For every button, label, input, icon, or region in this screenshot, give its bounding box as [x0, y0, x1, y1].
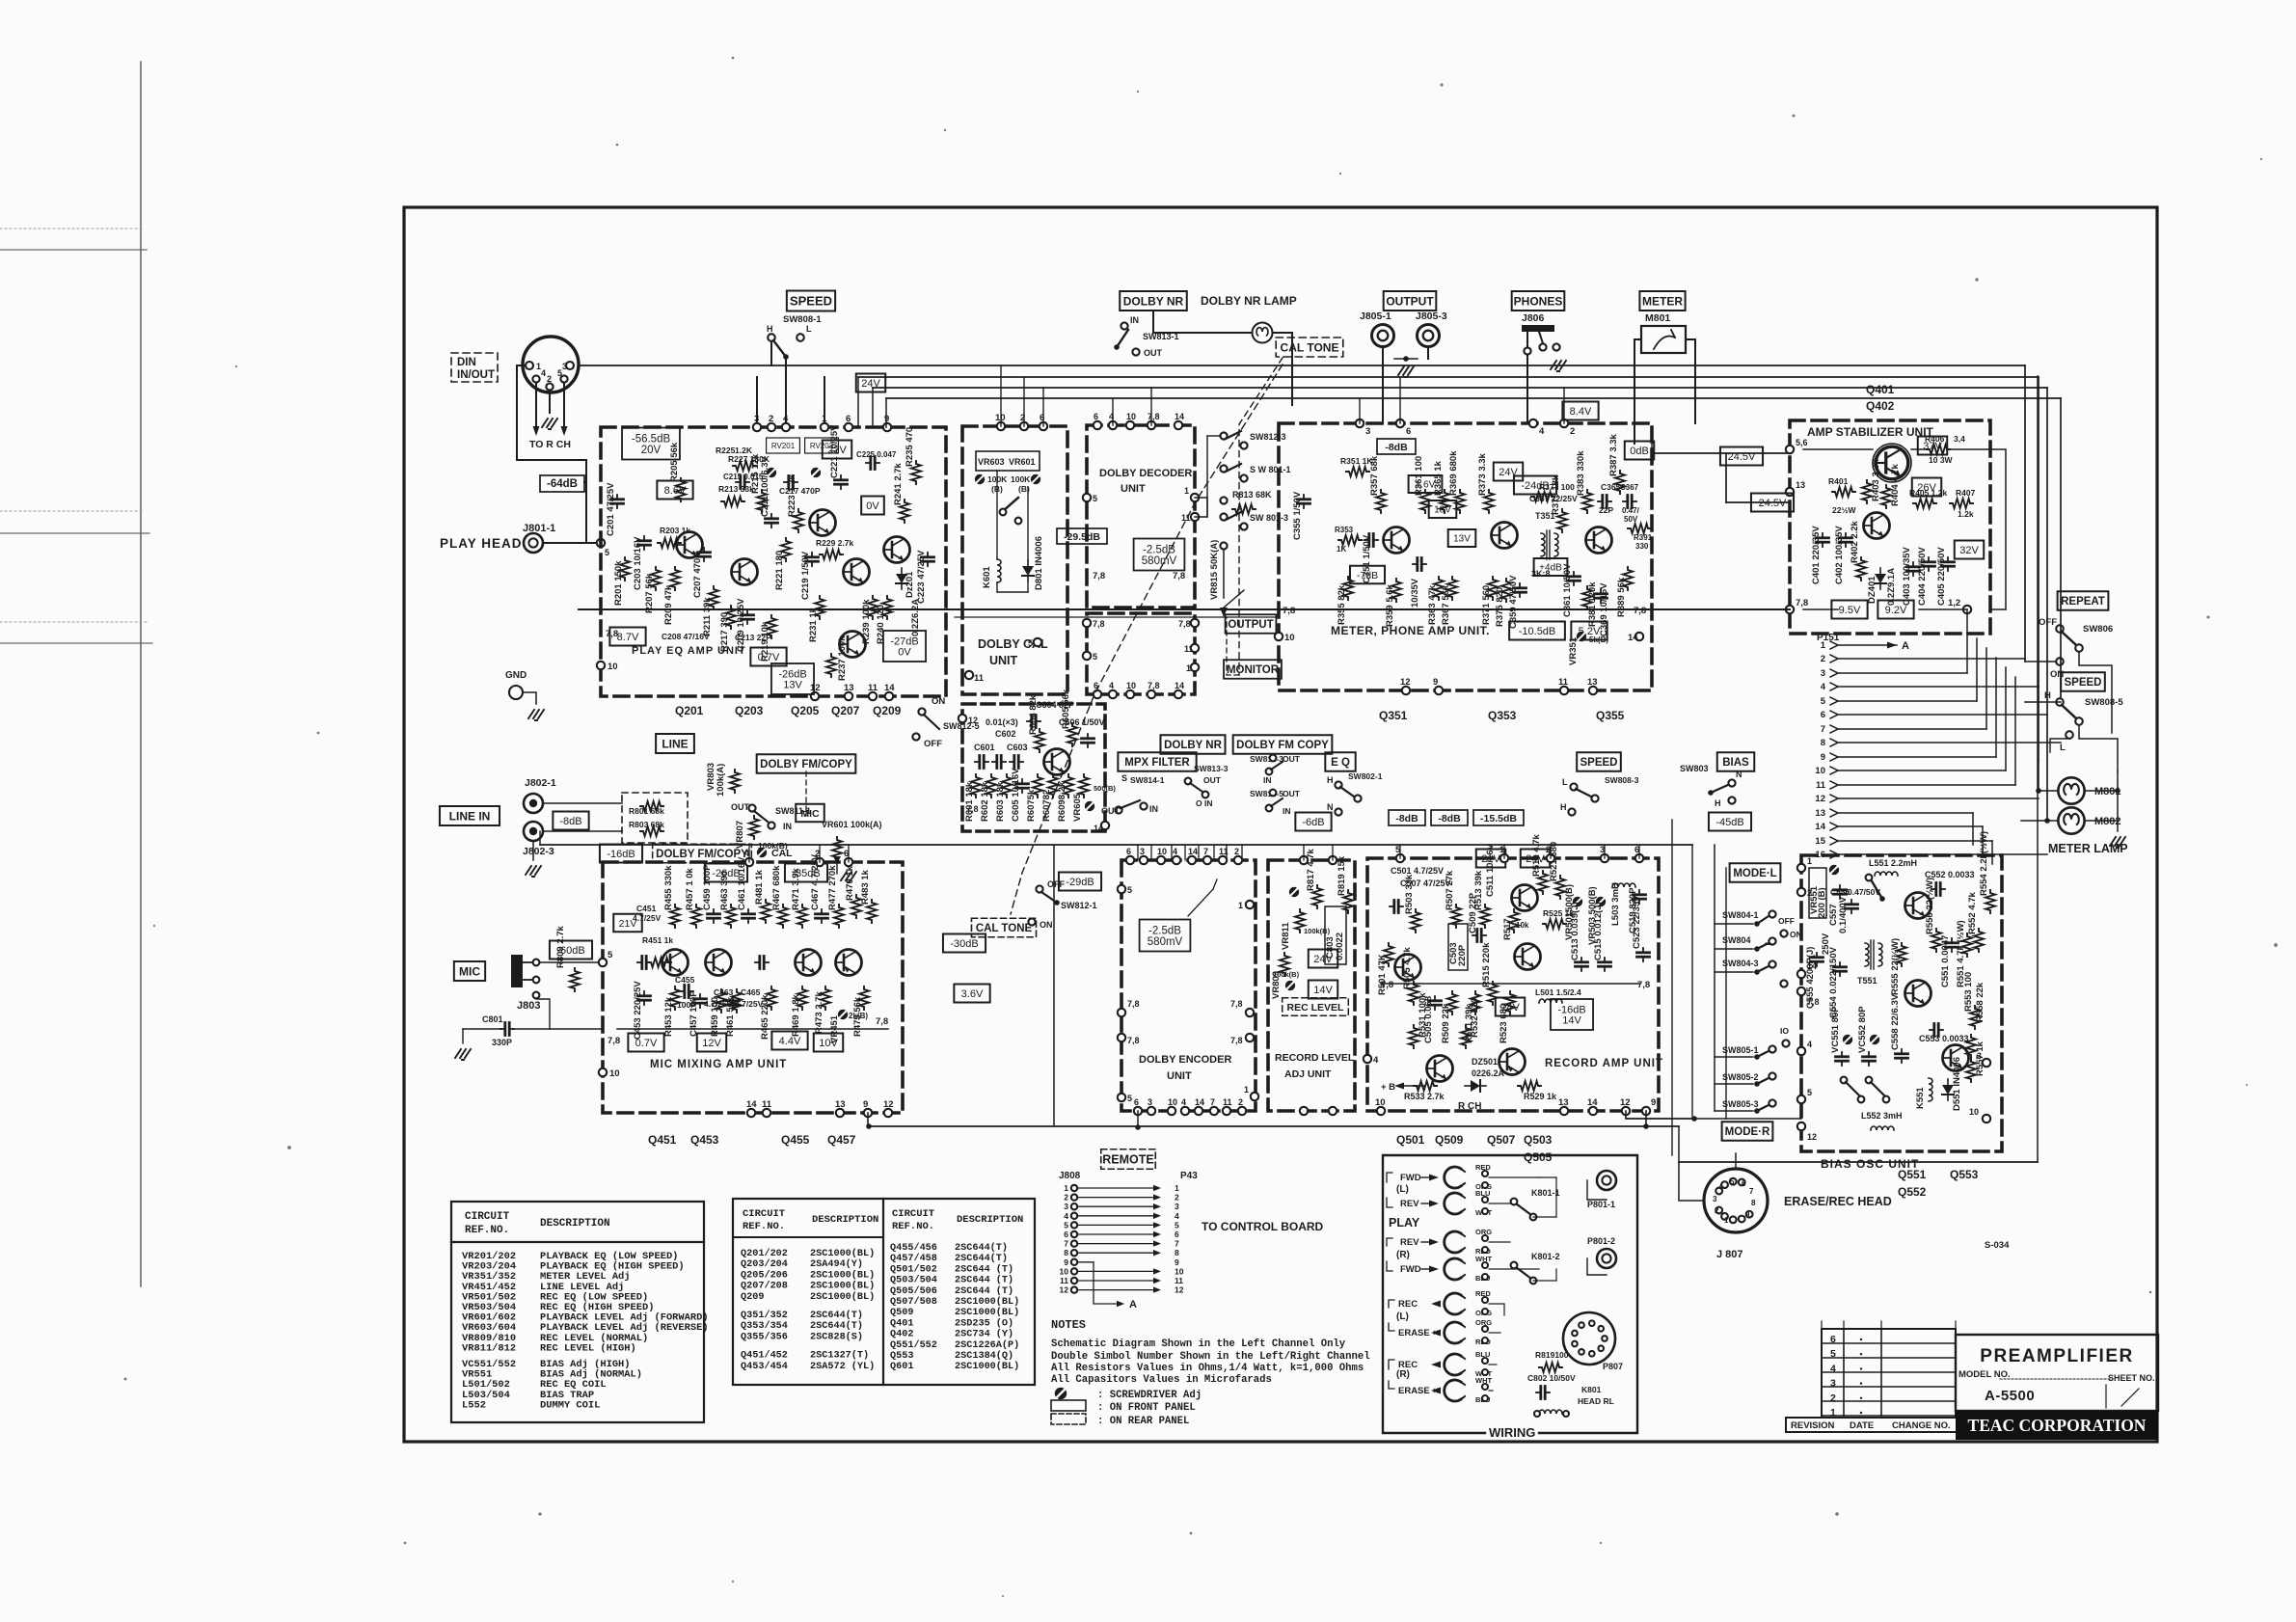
svg-text:9: 9 — [1745, 1210, 1750, 1219]
pin dolby nr out — [1132, 348, 1139, 355]
wire meter right — [1686, 339, 1695, 423]
resistor R803 68k — [640, 826, 663, 836]
svg-text:1: 1 — [1724, 1216, 1729, 1225]
resistor R235 470 — [911, 461, 921, 484]
svg-text:J802-1: J802-1 — [525, 777, 556, 789]
svg-text:S-034: S-034 — [1985, 1240, 2010, 1251]
svg-text:RECORD AMP UNIT: RECORD AMP UNIT — [1545, 1058, 1663, 1069]
left margin scan line — [140, 62, 142, 1286]
svg-text:R532 120: R532 120 — [1470, 998, 1480, 1038]
svg-text:J802-3: J802-3 — [523, 846, 554, 857]
MPX FILTER label — [1118, 752, 1196, 771]
svg-text:-56.5dB: -56.5dB — [632, 434, 671, 446]
decoder lower box — [1087, 613, 1195, 694]
resistor R369 680k — [1455, 490, 1465, 513]
svg-text:R229 2.7k: R229 2.7k — [816, 538, 853, 548]
svg-text:7: 7 — [1749, 1187, 1754, 1196]
svg-text:5: 5 — [557, 368, 562, 378]
svg-text:-10.5dB: -10.5dB — [1519, 626, 1556, 637]
svg-text:Q505/506: Q505/506 — [890, 1285, 937, 1297]
resistor R553 100 — [1970, 1006, 1980, 1029]
rec level bottom pins — [1300, 1107, 1308, 1115]
encoder top pins — [1126, 856, 1134, 864]
net 8.4V — [1562, 402, 1598, 420]
svg-text:7,8: 7,8 — [1173, 571, 1185, 581]
resistor R361 100 — [1420, 490, 1430, 513]
svg-text:R455 330k: R455 330k — [663, 865, 674, 910]
riser x2114 — [2038, 377, 2039, 761]
pin dolby nr in — [1121, 322, 1127, 329]
riser meter pins — [1359, 398, 1361, 423]
svg-text:7,8: 7,8 — [608, 1036, 620, 1046]
wire DIN pin2 down to ground — [549, 391, 551, 413]
CAL TONE rear-panel label (top) — [1276, 338, 1343, 357]
net -15.5dB — [1473, 810, 1524, 825]
svg-text:22P: 22P — [1599, 505, 1613, 515]
transistor Q551 — [1905, 893, 1931, 919]
svg-text:10k: 10k — [1516, 921, 1529, 930]
svg-text:8.7V: 8.7V — [617, 632, 639, 643]
svg-text:1: 1 — [1238, 901, 1243, 910]
jack P801-1 — [1597, 1171, 1616, 1190]
decoder lower pins — [1083, 619, 1091, 627]
decoder pin 1 — [1191, 494, 1199, 501]
coil L503 3mH — [1612, 883, 1635, 887]
bus y632 right — [1990, 608, 2006, 610]
svg-text:10: 10 — [1060, 1266, 1069, 1276]
resistor R801 68k — [640, 801, 663, 811]
trimmer RV201 — [767, 438, 800, 453]
svg-text:C602: C602 — [995, 729, 1016, 739]
resistor R227 180K — [733, 461, 756, 471]
svg-text:PLAY: PLAY — [1389, 1216, 1420, 1230]
svg-text:7,8: 7,8 — [1283, 606, 1295, 616]
svg-text:C223 47/25V: C223 47/25V — [916, 550, 927, 604]
svg-text:R819 15k: R819 15k — [1337, 855, 1347, 896]
svg-text:C211 100/6.3V: C211 100/6.3V — [760, 455, 770, 517]
pot VR551 — [1809, 868, 1826, 918]
bias pin 5 — [1797, 1095, 1805, 1103]
resistor R525 1k — [1543, 919, 1566, 929]
wire switch column — [1206, 436, 1208, 517]
svg-text:IO: IO — [1780, 1026, 1789, 1036]
resistor R211 39k — [709, 586, 718, 609]
svg-text:CAL TONE: CAL TONE — [976, 923, 1033, 934]
svg-text:MIC: MIC — [800, 808, 820, 820]
svg-text:0226.2A: 0226.2A — [1472, 1068, 1505, 1078]
svg-text:N: N — [1327, 802, 1334, 812]
svg-text:R483 1k: R483 1k — [860, 869, 871, 905]
head REC 1415 — [1445, 1354, 1465, 1375]
svg-text:R357 68k: R357 68k — [1369, 455, 1380, 496]
svg-text:C453 220/25V: C453 220/25V — [633, 981, 643, 1040]
svg-text:R509 22k: R509 22k — [1441, 1003, 1451, 1043]
capacitor C215 — [736, 476, 749, 489]
svg-text:Q402: Q402 — [890, 1330, 913, 1340]
wire play head to PLAY EQ unit pin 5 — [543, 542, 601, 544]
svg-text:MIC: MIC — [459, 964, 480, 978]
svg-text:2SC1384(Q): 2SC1384(Q) — [955, 1350, 1013, 1362]
svg-text:H: H — [1327, 775, 1334, 785]
svg-text:R813 68K: R813 68K — [1232, 490, 1272, 500]
transistor Q209 — [884, 537, 910, 563]
transistor Q402 — [1864, 513, 1890, 539]
net 0.7V mic — [628, 1034, 663, 1052]
svg-text:100k(A): 100k(A) — [716, 764, 726, 797]
svg-text:12: 12 — [883, 1099, 894, 1110]
resistor R459 — [716, 989, 726, 1013]
DOLBY FM/COPY dashed label — [653, 844, 752, 863]
svg-text:2: 2 — [769, 414, 773, 424]
capacitor C503 220P — [1448, 924, 1468, 970]
capacitor C803 0.0022 — [1325, 906, 1346, 964]
svg-text:13: 13 — [1558, 1097, 1569, 1108]
svg-text:IN: IN — [1283, 806, 1291, 816]
svg-text:6: 6 — [1406, 426, 1411, 437]
riser x1093 — [1053, 845, 1055, 1126]
svg-text:K601: K601 — [982, 566, 992, 588]
svg-text:100k(B): 100k(B) — [1304, 927, 1331, 935]
mic top pins — [745, 858, 753, 866]
svg-text:FWD: FWD — [1400, 1264, 1421, 1275]
svg-text:R451 1k: R451 1k — [642, 935, 673, 945]
left margin tick 3 — [0, 532, 149, 534]
svg-text:2SC644 (T): 2SC644 (T) — [955, 1285, 1013, 1297]
svg-text:7,8: 7,8 — [1637, 980, 1650, 990]
svg-text:10: 10 — [1815, 766, 1825, 776]
svg-text:PHONES: PHONES — [1514, 294, 1563, 308]
resistor R469 1.8k — [797, 987, 807, 1010]
wire pin9 down — [1645, 1111, 1647, 1126]
resistor R531 100k — [1409, 1025, 1418, 1048]
resistor R556 22 — [1931, 929, 1941, 952]
svg-text:-2.5dB: -2.5dB — [1143, 545, 1175, 556]
svg-text:L501 1.5/2.4: L501 1.5/2.4 — [1535, 987, 1581, 997]
mode r wires — [1715, 1056, 1753, 1058]
svg-text:-29dB: -29dB — [1066, 877, 1094, 888]
gnd c801 — [462, 1029, 464, 1043]
resistor R515 220k — [1488, 982, 1498, 1005]
svg-text:R217 390: R217 390 — [719, 612, 730, 652]
svg-text:J805-3: J805-3 — [1416, 311, 1447, 322]
resistor R521 680 — [1555, 876, 1565, 899]
meter M801 movement — [1641, 326, 1686, 353]
svg-text:0.47/: 0.47/ — [1622, 506, 1640, 515]
svg-text:1: 1 — [1186, 663, 1191, 673]
REC LEVEL dashed label — [1283, 998, 1349, 1016]
svg-text:20V: 20V — [641, 445, 662, 456]
svg-text:All Resistors Values in Ohms,1: All Resistors Values in Ohms,1/4 Watt, k… — [1051, 1363, 1364, 1374]
lamp ground — [2117, 821, 2119, 831]
resistor R519 4.7k — [1538, 871, 1548, 894]
svg-text:-8dB: -8dB — [1438, 813, 1461, 825]
svg-text:7,8: 7,8 — [1148, 412, 1160, 421]
capacitor C361 10/50V — [1568, 572, 1580, 585]
svg-text:11: 11 — [1184, 644, 1194, 654]
relay K551 — [1929, 1078, 1932, 1101]
resistor R463 390 — [726, 905, 736, 928]
capacitor C519 820P — [1634, 890, 1646, 904]
svg-text:2SC1000(BL): 2SC1000(BL) — [955, 1361, 1019, 1372]
amp stab pin 13 — [1786, 488, 1794, 496]
DIN connector J801 body — [523, 337, 579, 392]
mic jack J803 — [511, 955, 523, 987]
resistor R554 2.2k — [1985, 890, 1995, 913]
svg-text:R605 56k: R605 56k — [1061, 689, 1071, 729]
svg-text:7,8: 7,8 — [1093, 619, 1105, 629]
transformer T551 — [1865, 943, 1869, 966]
resistor R377 100 — [1531, 492, 1554, 501]
svg-text:C219 1/50V: C219 1/50V — [800, 551, 811, 600]
pot VR815 — [1220, 542, 1227, 549]
svg-text:2SC644(T): 2SC644(T) — [810, 1320, 863, 1332]
svg-text:Q457/458: Q457/458 — [890, 1253, 937, 1264]
capacitor C513 0.039(J) — [1576, 958, 1588, 971]
svg-text:C203 10/16V: C203 10/16V — [633, 536, 643, 590]
svg-text:: ON FRONT PANEL: : ON FRONT PANEL — [1097, 1402, 1196, 1414]
svg-text:VR601: VR601 — [1009, 457, 1036, 467]
resistor R406 10 3W — [1927, 445, 1950, 454]
svg-text:10: 10 — [1157, 847, 1167, 856]
svg-text:Q453/454: Q453/454 — [741, 1361, 788, 1372]
capacitor C367 — [1623, 496, 1636, 508]
net 8.6V — [657, 481, 692, 500]
svg-text:7,8: 7,8 — [876, 1016, 888, 1027]
trimmer VR351 — [1577, 632, 1586, 641]
transistor Q505 — [1499, 1049, 1526, 1075]
svg-text:4: 4 — [1718, 1183, 1723, 1192]
svg-text:R558 22k: R558 22k — [1975, 982, 1985, 1022]
resistor R407 1.2k — [1950, 499, 1973, 508]
bus y1160 — [1626, 1118, 1801, 1120]
capacitor C554 — [1834, 962, 1847, 976]
svg-text:REVISION: REVISION — [1791, 1420, 1835, 1431]
bus wire top y379 — [580, 365, 2025, 366]
svg-text:SW808-5: SW808-5 — [2085, 697, 2123, 708]
svg-text:Q401: Q401 — [890, 1318, 913, 1329]
svg-text:7,8: 7,8 — [1178, 619, 1191, 629]
svg-text:4: 4 — [1821, 682, 1826, 692]
svg-text:C213 22P: C213 22P — [735, 633, 771, 642]
wire mic pin9 riser — [867, 1113, 869, 1126]
svg-text:CIRCUIT: CIRCUIT — [743, 1208, 785, 1220]
svg-text:R221 180: R221 180 — [774, 551, 785, 590]
riser reclevel top pins — [1303, 845, 1305, 860]
mic unit pin 10 — [599, 1068, 607, 1076]
svg-text:4: 4 — [1539, 426, 1545, 437]
svg-text:6: 6 — [1134, 1097, 1139, 1107]
svg-text:R231 1k: R231 1k — [808, 607, 819, 642]
svg-text:R6098.2k: R6098.2k — [1057, 781, 1067, 822]
svg-text:OUTPUT: OUTPUT — [1228, 619, 1273, 631]
svg-text:OUT: OUT — [731, 802, 750, 812]
svg-text:×: × — [1433, 1328, 1438, 1338]
svg-text:5: 5 — [605, 548, 609, 557]
capacitor C223 — [922, 553, 934, 566]
svg-text:R507 27k: R507 27k — [1445, 870, 1455, 910]
svg-text:C515 0.012(J): C515 0.012(J) — [1593, 902, 1604, 960]
transistor Q355 — [1586, 527, 1612, 554]
svg-text:CAL TONE: CAL TONE — [1281, 340, 1339, 354]
svg-text:C461 10/16V: C461 10/16V — [737, 856, 747, 910]
capacitor C359 47/50V — [1514, 583, 1526, 597]
svg-text:4: 4 — [783, 414, 789, 424]
svg-text:R471 3.9k: R471 3.9k — [791, 867, 801, 910]
wire J802-1 right — [543, 802, 622, 804]
svg-text:L: L — [806, 324, 812, 334]
capacitor C221 — [835, 475, 848, 489]
svg-text:ERASE/REC HEAD: ERASE/REC HEAD — [1784, 1195, 1892, 1208]
meter amp pin14 — [1635, 633, 1643, 640]
net -16dB — [600, 845, 642, 863]
DIN IN/OUT rear-panel label — [451, 353, 498, 382]
transistor Q601 — [1044, 749, 1070, 775]
svg-text:K551: K551 — [1915, 1087, 1926, 1109]
transistor Q351 — [1384, 527, 1410, 554]
wire play eq internal bus — [617, 608, 940, 610]
wire encoder leader — [1188, 889, 1213, 916]
svg-text:(L): (L) — [1396, 1184, 1409, 1195]
svg-text:2SC828(S): 2SC828(S) — [810, 1331, 863, 1342]
net -29.5dB — [1057, 528, 1107, 544]
net 24.5V b — [1751, 494, 1794, 512]
svg-text:2SC644 (T): 2SC644 (T) — [955, 1275, 1013, 1286]
left margin tick 4 — [0, 510, 145, 512]
riser x2113 long — [2037, 376, 2039, 1162]
svg-text:100K: 100K — [1011, 474, 1031, 484]
bias pin 12 — [1797, 1122, 1805, 1130]
svg-text:N: N — [1736, 770, 1742, 779]
svg-text:C359 47/50V: C359 47/50V — [1508, 575, 1519, 629]
svg-text:VC552 80P: VC552 80P — [1857, 1006, 1868, 1053]
svg-text:UNIT: UNIT — [1167, 1070, 1192, 1082]
svg-text:11: 11 — [1175, 1276, 1183, 1285]
svg-text:Q509: Q509 — [1435, 1133, 1464, 1147]
svg-text:H: H — [767, 324, 773, 334]
svg-text:12: 12 — [810, 683, 821, 693]
svg-text:14: 14 — [1195, 1097, 1204, 1107]
svg-text:R501 47K: R501 47K — [1377, 954, 1388, 995]
svg-text:C603: C603 — [1007, 743, 1028, 752]
svg-text:SW804-1: SW804-1 — [1722, 910, 1759, 920]
DOLBY CAL UNIT box — [962, 426, 1067, 694]
svg-text:PLAY HEAD: PLAY HEAD — [440, 536, 523, 551]
cal tone diagonal — [1011, 365, 1283, 914]
meter amp bottom pins — [1402, 687, 1410, 694]
CAL TONE mid label — [971, 918, 1036, 937]
bias pin 1 — [1797, 864, 1805, 872]
wire speed pins vertical 1 — [756, 377, 758, 427]
svg-text:R475 56k: R475 56k — [852, 996, 863, 1037]
capacitor C219 — [806, 553, 819, 566]
svg-text:Q551: Q551 — [1898, 1168, 1927, 1181]
svg-text:Q207/208: Q207/208 — [741, 1281, 788, 1292]
svg-text:4: 4 — [1830, 1363, 1836, 1374]
svg-text:24V: 24V — [1313, 954, 1333, 965]
SPEED mid label — [1577, 752, 1621, 771]
svg-text:220P: 220P — [1457, 944, 1468, 966]
P151 riser 1 — [1966, 609, 1968, 673]
svg-text:VR811: VR811 — [1281, 922, 1291, 950]
svg-text:R6075k: R6075k — [1026, 789, 1037, 822]
resistor R402 2.2k — [1856, 557, 1866, 581]
svg-text:SW805-3: SW805-3 — [1722, 1099, 1759, 1109]
svg-text:IN: IN — [783, 822, 792, 831]
svg-text:METER, PHONE AMP UNIT.: METER, PHONE AMP UNIT. — [1331, 624, 1490, 637]
mode vertical wires — [1714, 845, 1715, 1111]
resistor R201 150k — [620, 557, 630, 581]
REPEAT label — [2058, 591, 2109, 610]
net -56.5dB 20V — [622, 428, 680, 460]
svg-text:-45dB: -45dB — [1715, 817, 1743, 828]
riser x1741 — [1678, 1126, 1680, 1162]
svg-text:2SC1226A(P): 2SC1226A(P) — [955, 1339, 1019, 1351]
resistor R209 47k — [670, 567, 680, 590]
svg-text:R353: R353 — [1335, 526, 1354, 534]
svg-text:9.5V: 9.5V — [1839, 605, 1861, 616]
svg-text:14: 14 — [1175, 412, 1184, 421]
net -8dB rec b — [1431, 810, 1468, 825]
net 8.7V — [609, 628, 645, 646]
svg-text:C402 100/35V: C402 100/35V — [1834, 526, 1845, 584]
transistor Q553 — [1943, 1045, 1969, 1071]
svg-text:4: 4 — [1175, 1211, 1179, 1221]
svg-text:C801: C801 — [482, 1014, 503, 1024]
net 14V recl — [1309, 981, 1337, 999]
dolby cal pin 11 — [965, 671, 973, 679]
svg-text:-64dB: -64dB — [547, 478, 578, 490]
net -35dB — [785, 864, 827, 882]
svg-text:12: 12 — [1815, 794, 1825, 804]
MODE-R label — [1722, 1122, 1773, 1141]
svg-text:5: 5 — [1730, 1177, 1735, 1186]
play head jack J801-1 — [524, 533, 543, 553]
diode DZ401 — [1875, 568, 1886, 589]
svg-text:R477 270k: R477 270k — [827, 865, 838, 910]
resistor R604 82k — [1035, 729, 1044, 752]
svg-text:R369 680k: R369 680k — [1448, 450, 1459, 496]
svg-text:R819100: R819100 — [1535, 1350, 1569, 1360]
svg-text:SW813-3: SW813-3 — [1194, 764, 1229, 773]
svg-text:14: 14 — [1188, 847, 1198, 856]
net -6dB — [1295, 813, 1331, 831]
svg-text:7: 7 — [1175, 1239, 1179, 1249]
J807 pins — [1715, 1207, 1722, 1214]
switch SW812-3 — [1220, 432, 1227, 439]
svg-text:R389 56k: R389 56k — [1616, 577, 1627, 617]
bus y1168 — [869, 1125, 1679, 1127]
svg-text:14V: 14V — [1313, 985, 1333, 996]
svg-text:R CH: R CH — [1458, 1101, 1481, 1112]
J807 wires — [1735, 1153, 1737, 1169]
switch SW813-1 — [1117, 330, 1128, 347]
svg-text:R465 220k: R465 220k — [760, 994, 770, 1040]
svg-text:REC LEVEL (HIGH): REC LEVEL (HIGH) — [540, 1342, 636, 1354]
left margin tick 5 — [0, 642, 152, 644]
resistor R511 39k — [1471, 991, 1480, 1014]
svg-text:OFF: OFF — [1047, 879, 1065, 889]
svg-text:R553 100: R553 100 — [1963, 972, 1974, 1012]
DIN pin 3 — [566, 362, 574, 369]
bias pin 10 — [1983, 1115, 1990, 1122]
svg-text:OUT: OUT — [1203, 775, 1222, 785]
svg-text:DATE: DATE — [1850, 1420, 1874, 1431]
svg-text:12V: 12V — [702, 1038, 721, 1049]
svg-text:7,8: 7,8 — [1796, 598, 1808, 608]
svg-text:C207 470P: C207 470P — [692, 552, 703, 598]
svg-text:5: 5 — [608, 950, 613, 960]
main bus 7,8 y632 — [579, 608, 1790, 610]
